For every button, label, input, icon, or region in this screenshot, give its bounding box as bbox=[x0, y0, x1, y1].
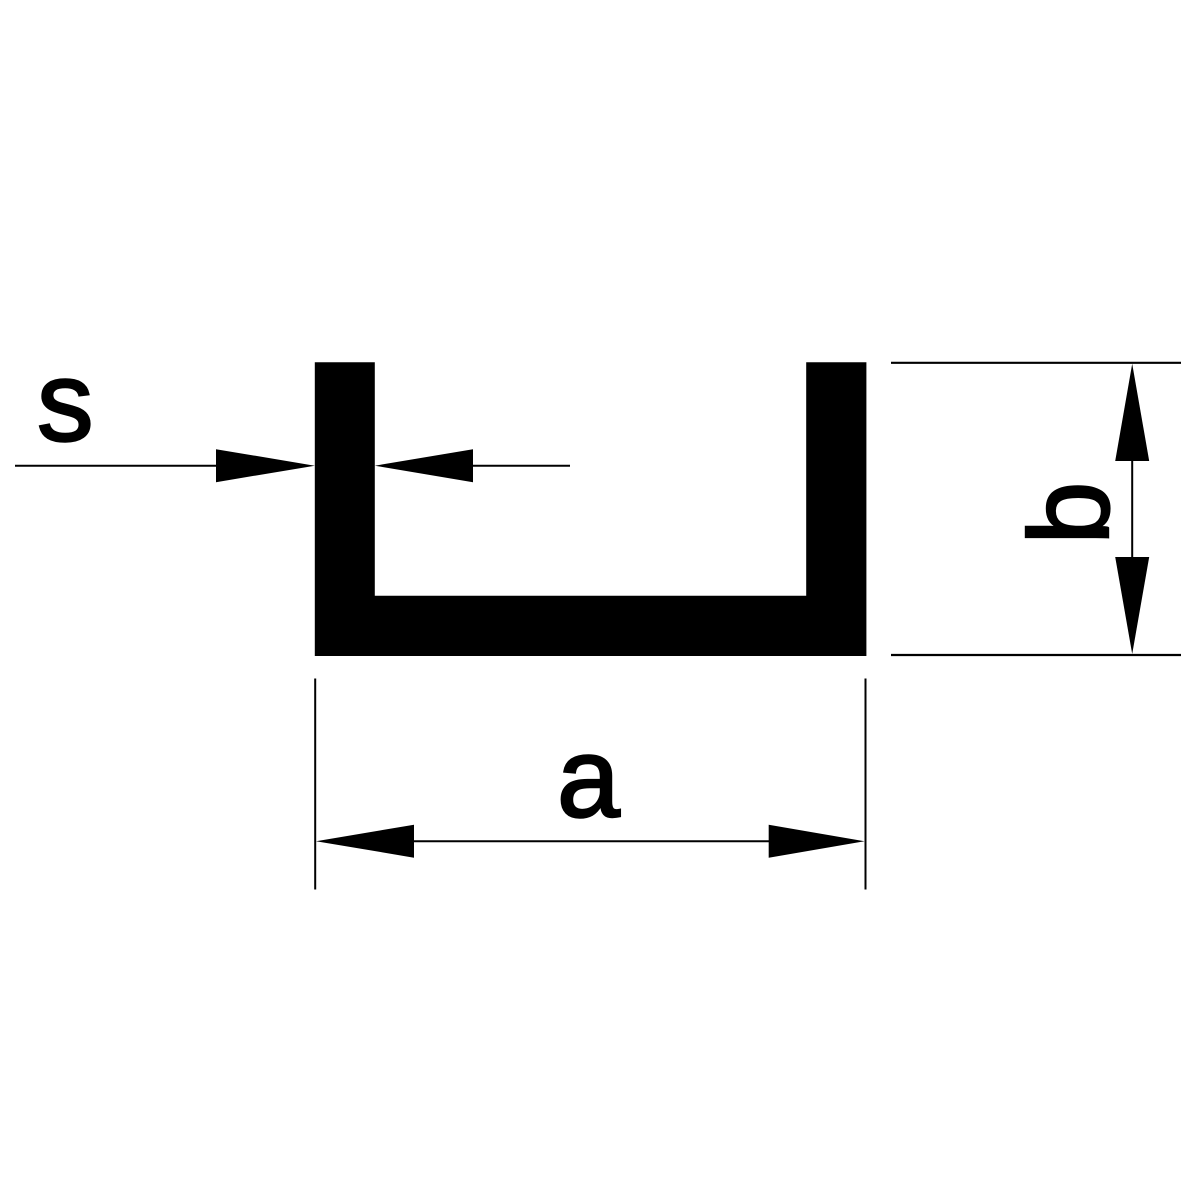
svg-text:s: s bbox=[37, 339, 94, 465]
svg-text:a: a bbox=[557, 715, 620, 841]
svg-text:b: b bbox=[1006, 482, 1132, 545]
